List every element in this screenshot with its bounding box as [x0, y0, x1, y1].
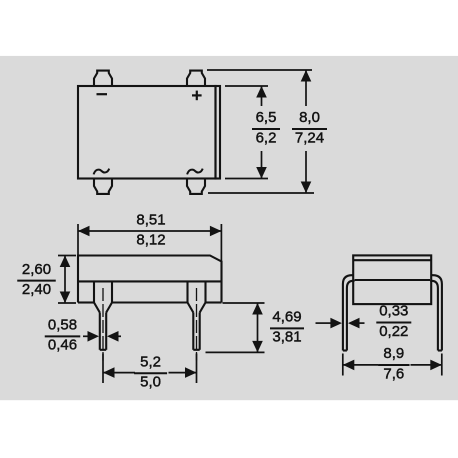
svg-text:2,60: 2,60	[22, 261, 51, 278]
svg-text:8,51: 8,51	[136, 211, 165, 228]
svg-text:0,58: 0,58	[48, 317, 77, 334]
svg-text:4,69: 4,69	[272, 309, 301, 326]
svg-text:0,33: 0,33	[379, 303, 408, 320]
svg-text:7,24: 7,24	[295, 129, 324, 146]
svg-text:0,46: 0,46	[48, 337, 77, 354]
svg-text:6,2: 6,2	[256, 129, 277, 146]
svg-text:5,0: 5,0	[140, 374, 161, 391]
svg-text:8,9: 8,9	[383, 345, 404, 362]
svg-text:7,6: 7,6	[383, 365, 404, 382]
svg-text:3,81: 3,81	[272, 329, 301, 346]
svg-text:2,40: 2,40	[22, 281, 51, 298]
svg-text:0,22: 0,22	[379, 323, 408, 340]
svg-text:5,2: 5,2	[140, 354, 161, 371]
svg-text:8,12: 8,12	[136, 232, 165, 249]
svg-text:8,0: 8,0	[299, 109, 320, 126]
svg-text:6,5: 6,5	[256, 109, 277, 126]
